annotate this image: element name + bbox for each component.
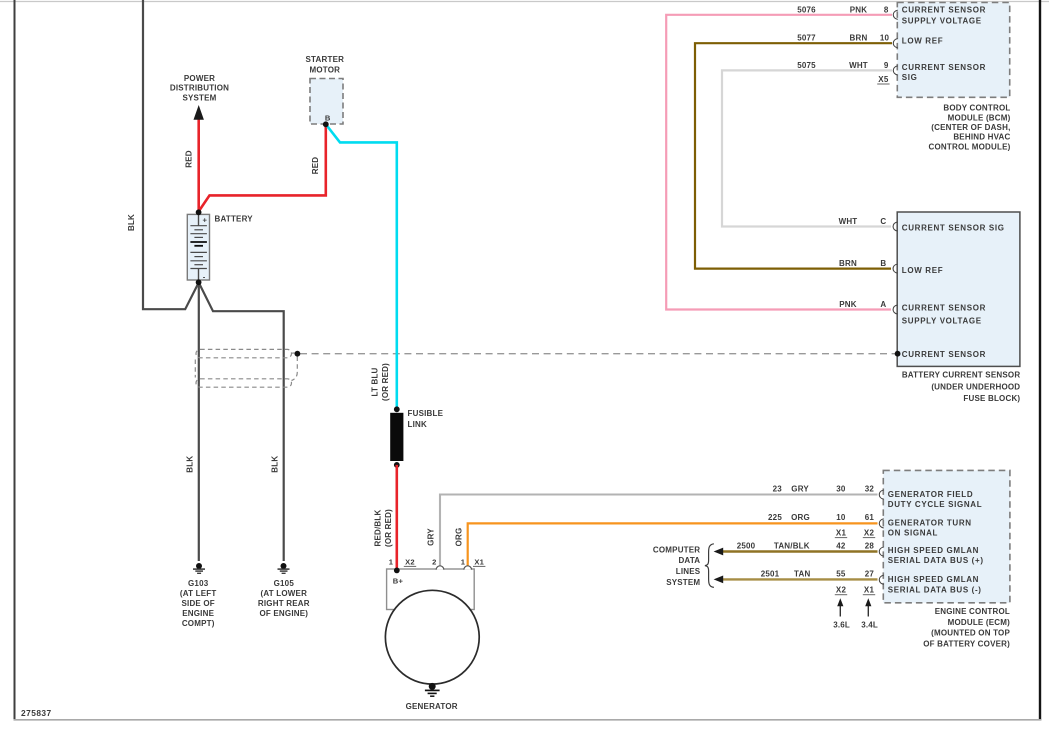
sensor connector arc pin C bbox=[893, 222, 897, 231]
svg-text:10: 10 bbox=[880, 34, 890, 43]
svg-text:DATA: DATA bbox=[678, 556, 700, 565]
wire RED battery to starter motor B bbox=[199, 124, 326, 211]
svg-text:BRN: BRN bbox=[839, 259, 857, 268]
current sensor ring (upper) bbox=[196, 349, 292, 357]
svg-text:POWER: POWER bbox=[184, 74, 215, 83]
svg-text:61: 61 bbox=[865, 513, 875, 522]
battery symbol bbox=[187, 212, 209, 282]
svg-text:28: 28 bbox=[865, 541, 875, 550]
svg-text:C: C bbox=[880, 217, 886, 226]
svg-text:DISTRIBUTION: DISTRIBUTION bbox=[170, 84, 229, 93]
ring side (left) bbox=[194, 360, 196, 378]
node current sensor ring tap bbox=[295, 351, 301, 357]
svg-text:23: 23 bbox=[773, 485, 783, 494]
ground G105 bbox=[278, 563, 290, 573]
svg-text:3.4L: 3.4L bbox=[861, 620, 878, 629]
generator connector bump pin 2 bbox=[436, 566, 444, 570]
svg-text:(OR RED): (OR RED) bbox=[384, 509, 393, 547]
wire PNK BCM pin 8 to sensor pin A bbox=[666, 15, 892, 310]
svg-text:SUPPLY VOLTAGE: SUPPLY VOLTAGE bbox=[902, 317, 982, 326]
svg-text:-: - bbox=[203, 273, 206, 282]
dashed leader wire to CURRENT SENSOR bbox=[300, 353, 896, 355]
svg-text:ORG: ORG bbox=[454, 528, 463, 547]
wire GRY generator terminal 2 to ECM bbox=[440, 495, 878, 570]
ring tap stub bbox=[292, 352, 298, 355]
svg-text:CURRENT SENSOR: CURRENT SENSOR bbox=[902, 350, 986, 359]
svg-text:RED/BLK: RED/BLK bbox=[374, 510, 383, 547]
node sensor dashed tap bbox=[895, 351, 901, 357]
wire LT BLU starter B to fusible link bbox=[326, 124, 397, 408]
engine variant arrow 3.4L bbox=[867, 604, 869, 617]
svg-text:TAN/BLK: TAN/BLK bbox=[774, 541, 810, 550]
svg-text:ENGINE: ENGINE bbox=[182, 609, 214, 618]
svg-text:9: 9 bbox=[884, 61, 889, 70]
svg-text:MODULE (ECM): MODULE (ECM) bbox=[948, 618, 1011, 627]
svg-text:BRN: BRN bbox=[850, 34, 868, 43]
svg-text:(CENTER OF DASH,: (CENTER OF DASH, bbox=[931, 123, 1010, 132]
svg-text:ENGINE CONTROL: ENGINE CONTROL bbox=[935, 607, 1010, 616]
svg-text:CURRENT SENSOR: CURRENT SENSOR bbox=[902, 63, 986, 72]
wire BLK battery negative to G105 bbox=[199, 282, 284, 561]
wire TAN/BLK high speed GMLAN plus bbox=[722, 550, 878, 552]
svg-text:G103: G103 bbox=[188, 579, 209, 588]
svg-text:WHT: WHT bbox=[849, 61, 868, 70]
svg-text:LINES: LINES bbox=[676, 567, 701, 576]
svg-text:2501: 2501 bbox=[761, 569, 780, 578]
generator connector bump pin 1 bbox=[464, 566, 472, 570]
svg-text:ON SIGNAL: ON SIGNAL bbox=[888, 528, 938, 537]
generator case ground bbox=[425, 683, 440, 696]
svg-text:SIG: SIG bbox=[902, 73, 918, 82]
svg-text:BEHIND HVAC: BEHIND HVAC bbox=[953, 133, 1010, 142]
svg-text:CURRENT SENSOR SIG: CURRENT SENSOR SIG bbox=[902, 223, 1005, 232]
svg-text:CONTROL MODULE): CONTROL MODULE) bbox=[929, 142, 1011, 151]
svg-text:5075: 5075 bbox=[797, 61, 816, 70]
node starter B terminal bbox=[323, 121, 329, 127]
node fusible link bottom bbox=[394, 462, 400, 468]
svg-text:MODULE (BCM): MODULE (BCM) bbox=[948, 113, 1011, 122]
svg-text:CURRENT SENSOR: CURRENT SENSOR bbox=[902, 304, 986, 313]
svg-text:(AT LEFT: (AT LEFT bbox=[180, 589, 217, 598]
body control module box bbox=[897, 3, 1009, 98]
wire BRN BCM pin 10 to sensor pin B bbox=[695, 43, 892, 268]
svg-text:OF BATTERY COVER): OF BATTERY COVER) bbox=[923, 640, 1010, 649]
svg-text:SUPPLY VOLTAGE: SUPPLY VOLTAGE bbox=[902, 16, 982, 25]
svg-text:G105: G105 bbox=[274, 579, 295, 588]
svg-text:B: B bbox=[325, 113, 331, 122]
sensor connector arc pin A bbox=[893, 305, 897, 314]
svg-text:30: 30 bbox=[836, 485, 846, 494]
ECM connector arc pin 55/27 bbox=[879, 575, 883, 584]
svg-text:PNK: PNK bbox=[839, 300, 857, 309]
ECM connector arc pin 30/32 bbox=[879, 490, 883, 499]
svg-text:32: 32 bbox=[865, 485, 875, 494]
svg-text:FUSIBLE: FUSIBLE bbox=[408, 409, 444, 418]
svg-text:X5: X5 bbox=[878, 75, 889, 84]
sensor connector arc pin B bbox=[893, 264, 897, 273]
svg-text:RIGHT REAR: RIGHT REAR bbox=[258, 599, 310, 608]
border frame left line bbox=[14, 0, 16, 721]
wire RED battery to power distribution arrow bbox=[197, 118, 200, 212]
svg-text:GRY: GRY bbox=[427, 528, 436, 546]
border frame top line bbox=[0, 1, 1049, 3]
BCM connector arc pin 8 bbox=[893, 10, 897, 19]
wire WHT BCM pin 9 to sensor pin C bbox=[722, 70, 892, 226]
wire TAN high speed GMLAN minus bbox=[722, 578, 878, 580]
arrowhead to power distribution system bbox=[194, 105, 204, 120]
svg-text:X1: X1 bbox=[474, 557, 484, 566]
wire BLK battery negative to G103 bbox=[198, 282, 200, 561]
svg-text:STARTER: STARTER bbox=[306, 55, 345, 64]
svg-text:LOW REF: LOW REF bbox=[902, 266, 943, 275]
border frame right line bbox=[1039, 0, 1041, 721]
svg-text:55: 55 bbox=[836, 569, 846, 578]
node generator B+ terminal bbox=[394, 568, 400, 574]
svg-text:5077: 5077 bbox=[797, 34, 816, 43]
svg-text:2500: 2500 bbox=[737, 541, 756, 550]
svg-text:275837: 275837 bbox=[21, 708, 52, 718]
svg-text:1: 1 bbox=[389, 557, 394, 566]
svg-text:X2: X2 bbox=[864, 529, 875, 538]
svg-text:PNK: PNK bbox=[850, 5, 868, 14]
svg-text:COMPT): COMPT) bbox=[182, 619, 215, 628]
generator body circle bbox=[385, 590, 479, 684]
battery current sensor box bbox=[897, 212, 1020, 366]
ground G103 bbox=[193, 563, 205, 573]
svg-text:LT BLU: LT BLU bbox=[371, 367, 380, 396]
svg-text:LOW REF: LOW REF bbox=[902, 37, 943, 46]
svg-text:225: 225 bbox=[768, 513, 782, 522]
svg-text:WHT: WHT bbox=[839, 217, 858, 226]
starter motor box bbox=[310, 79, 343, 125]
svg-text:(MOUNTED ON TOP: (MOUNTED ON TOP bbox=[931, 629, 1010, 638]
generator housing box bbox=[387, 569, 475, 610]
svg-text:GENERATOR: GENERATOR bbox=[406, 702, 458, 711]
engine variant arrow 3.6L bbox=[839, 604, 841, 617]
svg-text:10: 10 bbox=[836, 513, 846, 522]
svg-text:HIGH SPEED GMLAN: HIGH SPEED GMLAN bbox=[888, 575, 979, 584]
svg-text:3.6L: 3.6L bbox=[833, 620, 850, 629]
svg-text:1: 1 bbox=[461, 557, 466, 566]
svg-text:BLK: BLK bbox=[185, 456, 194, 473]
border frame bottom line bbox=[14, 719, 1042, 721]
svg-text:X2: X2 bbox=[405, 557, 415, 566]
svg-text:+: + bbox=[203, 215, 208, 224]
svg-text:SERIAL DATA BUS (+): SERIAL DATA BUS (+) bbox=[888, 556, 984, 565]
current sensor ring (lower) bbox=[196, 379, 292, 387]
engine control module box bbox=[883, 470, 1010, 602]
svg-text:TAN: TAN bbox=[794, 569, 810, 578]
svg-text:GRY: GRY bbox=[791, 485, 809, 494]
svg-text:CURRENT SENSOR: CURRENT SENSOR bbox=[902, 6, 986, 15]
svg-text:42: 42 bbox=[836, 541, 846, 550]
node battery positive terminal bbox=[196, 209, 202, 215]
wire RED/BLK fusible link to generator B+ bbox=[395, 465, 398, 570]
svg-text:X2: X2 bbox=[836, 586, 847, 595]
svg-text:OF ENGINE): OF ENGINE) bbox=[259, 609, 308, 618]
svg-text:A: A bbox=[880, 300, 886, 309]
svg-text:RED: RED bbox=[185, 150, 194, 168]
wire BLK battery negative to top of page bbox=[143, 0, 199, 309]
svg-text:SYSTEM: SYSTEM bbox=[666, 578, 700, 587]
svg-text:2: 2 bbox=[432, 557, 436, 566]
svg-text:27: 27 bbox=[865, 569, 875, 578]
ring side (right) bbox=[292, 357, 298, 381]
arrowhead GMLAN plus to data lines system bbox=[714, 548, 724, 556]
svg-text:5076: 5076 bbox=[797, 5, 816, 14]
svg-text:B+: B+ bbox=[393, 577, 404, 586]
svg-text:HIGH SPEED GMLAN: HIGH SPEED GMLAN bbox=[888, 546, 979, 555]
brace computer data lines system bbox=[705, 544, 714, 588]
ECM connector arc pin 10/61 bbox=[879, 519, 883, 528]
svg-text:RED: RED bbox=[311, 157, 320, 175]
svg-text:COMPUTER: COMPUTER bbox=[653, 545, 700, 554]
node battery negative terminal bbox=[196, 279, 202, 285]
svg-text:BLK: BLK bbox=[127, 214, 136, 231]
svg-text:BLK: BLK bbox=[270, 456, 279, 473]
svg-text:GENERATOR TURN: GENERATOR TURN bbox=[888, 519, 972, 528]
svg-text:DUTY CYCLE SIGNAL: DUTY CYCLE SIGNAL bbox=[888, 500, 982, 509]
BCM connector arc pin 9 bbox=[893, 66, 897, 75]
svg-text:(UNDER UNDERHOOD: (UNDER UNDERHOOD bbox=[931, 383, 1020, 392]
svg-text:GENERATOR FIELD: GENERATOR FIELD bbox=[888, 490, 973, 499]
svg-text:8: 8 bbox=[884, 5, 889, 14]
svg-text:(OR RED): (OR RED) bbox=[381, 363, 390, 401]
svg-text:SIDE OF: SIDE OF bbox=[181, 599, 214, 608]
fusible link body bbox=[390, 413, 403, 461]
BCM connector arc pin 10 bbox=[893, 39, 897, 48]
svg-text:LINK: LINK bbox=[408, 420, 427, 429]
svg-text:X1: X1 bbox=[836, 529, 847, 538]
svg-text:BATTERY CURRENT SENSOR: BATTERY CURRENT SENSOR bbox=[902, 370, 1021, 379]
svg-text:B: B bbox=[880, 259, 886, 268]
svg-text:MOTOR: MOTOR bbox=[309, 66, 340, 75]
svg-text:FUSE BLOCK): FUSE BLOCK) bbox=[963, 394, 1020, 403]
svg-text:SYSTEM: SYSTEM bbox=[182, 93, 216, 102]
ECM connector arc pin 42/28 bbox=[879, 547, 883, 556]
svg-text:BATTERY: BATTERY bbox=[215, 215, 254, 224]
svg-text:X1: X1 bbox=[864, 586, 875, 595]
node fusible link top bbox=[394, 406, 400, 412]
svg-text:ORG: ORG bbox=[791, 513, 810, 522]
arrowhead GMLAN minus to data lines system bbox=[714, 576, 724, 584]
svg-text:SERIAL DATA BUS (-): SERIAL DATA BUS (-) bbox=[888, 585, 982, 594]
svg-text:(AT LOWER: (AT LOWER bbox=[261, 589, 308, 598]
svg-text:BODY CONTROL: BODY CONTROL bbox=[943, 104, 1010, 113]
wire ORG generator terminal 1 to ECM bbox=[468, 523, 878, 569]
